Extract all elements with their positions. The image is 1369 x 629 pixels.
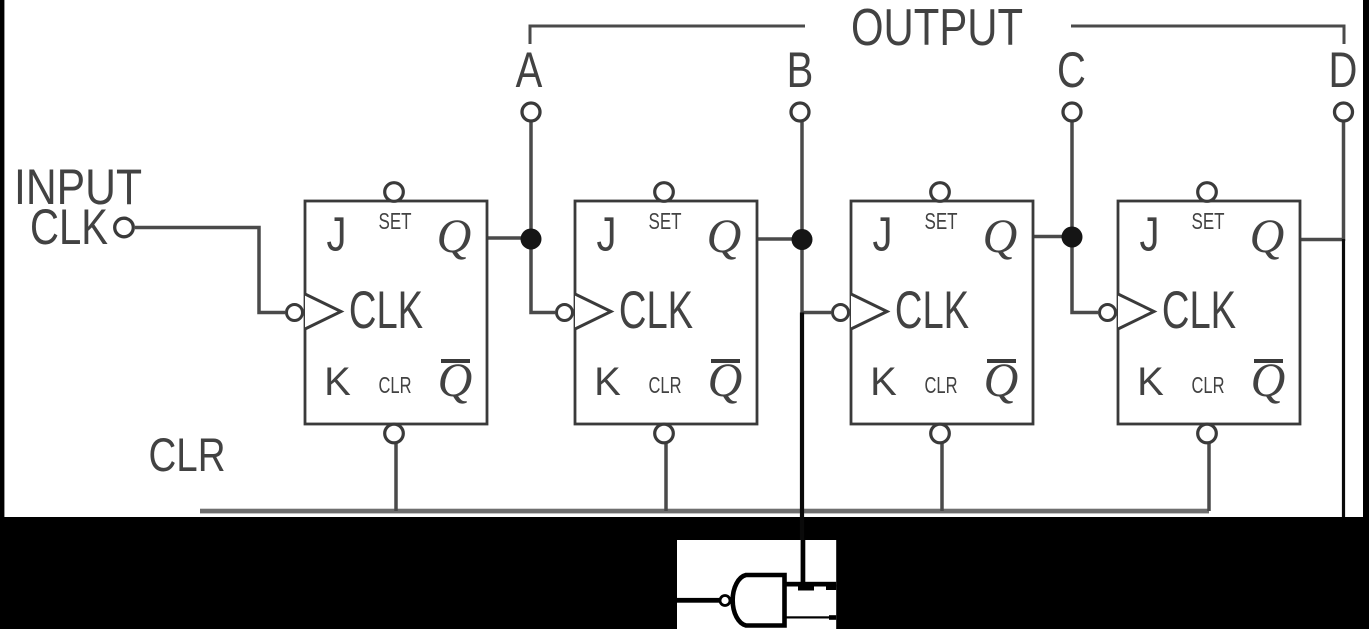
svg-text:K: K <box>594 360 621 404</box>
svg-text:Q: Q <box>437 210 472 263</box>
svg-text:CLK: CLK <box>895 280 969 340</box>
svg-text:CLR: CLR <box>649 372 682 398</box>
svg-text:SET: SET <box>1192 208 1225 234</box>
svg-text:Q: Q <box>707 210 742 263</box>
svg-text:Q: Q <box>1250 210 1285 263</box>
svg-text:Q: Q <box>983 210 1018 263</box>
svg-text:D: D <box>1329 42 1358 98</box>
svg-text:CLK: CLK <box>619 280 693 340</box>
svg-text:K: K <box>324 360 351 404</box>
svg-text:CLK: CLK <box>1162 280 1236 340</box>
svg-text:J: J <box>1139 208 1159 261</box>
svg-text:C: C <box>1057 42 1086 98</box>
svg-text:J: J <box>326 208 346 261</box>
svg-text:J: J <box>872 208 892 261</box>
svg-text:CLR: CLR <box>149 428 226 481</box>
svg-text:SET: SET <box>379 208 412 234</box>
svg-text:CLK: CLK <box>349 280 423 340</box>
svg-text:A: A <box>516 42 543 98</box>
svg-text:CLK: CLK <box>30 199 108 255</box>
svg-text:SET: SET <box>649 208 682 234</box>
svg-text:OUTPUT: OUTPUT <box>851 0 1023 57</box>
svg-text:J: J <box>596 208 616 261</box>
svg-text:K: K <box>1137 360 1164 404</box>
svg-text:CLR: CLR <box>1192 372 1225 398</box>
svg-text:K: K <box>870 360 897 404</box>
svg-text:B: B <box>787 42 814 98</box>
svg-text:CLR: CLR <box>379 372 412 398</box>
svg-text:CLR: CLR <box>925 372 958 398</box>
svg-text:SET: SET <box>925 208 958 234</box>
